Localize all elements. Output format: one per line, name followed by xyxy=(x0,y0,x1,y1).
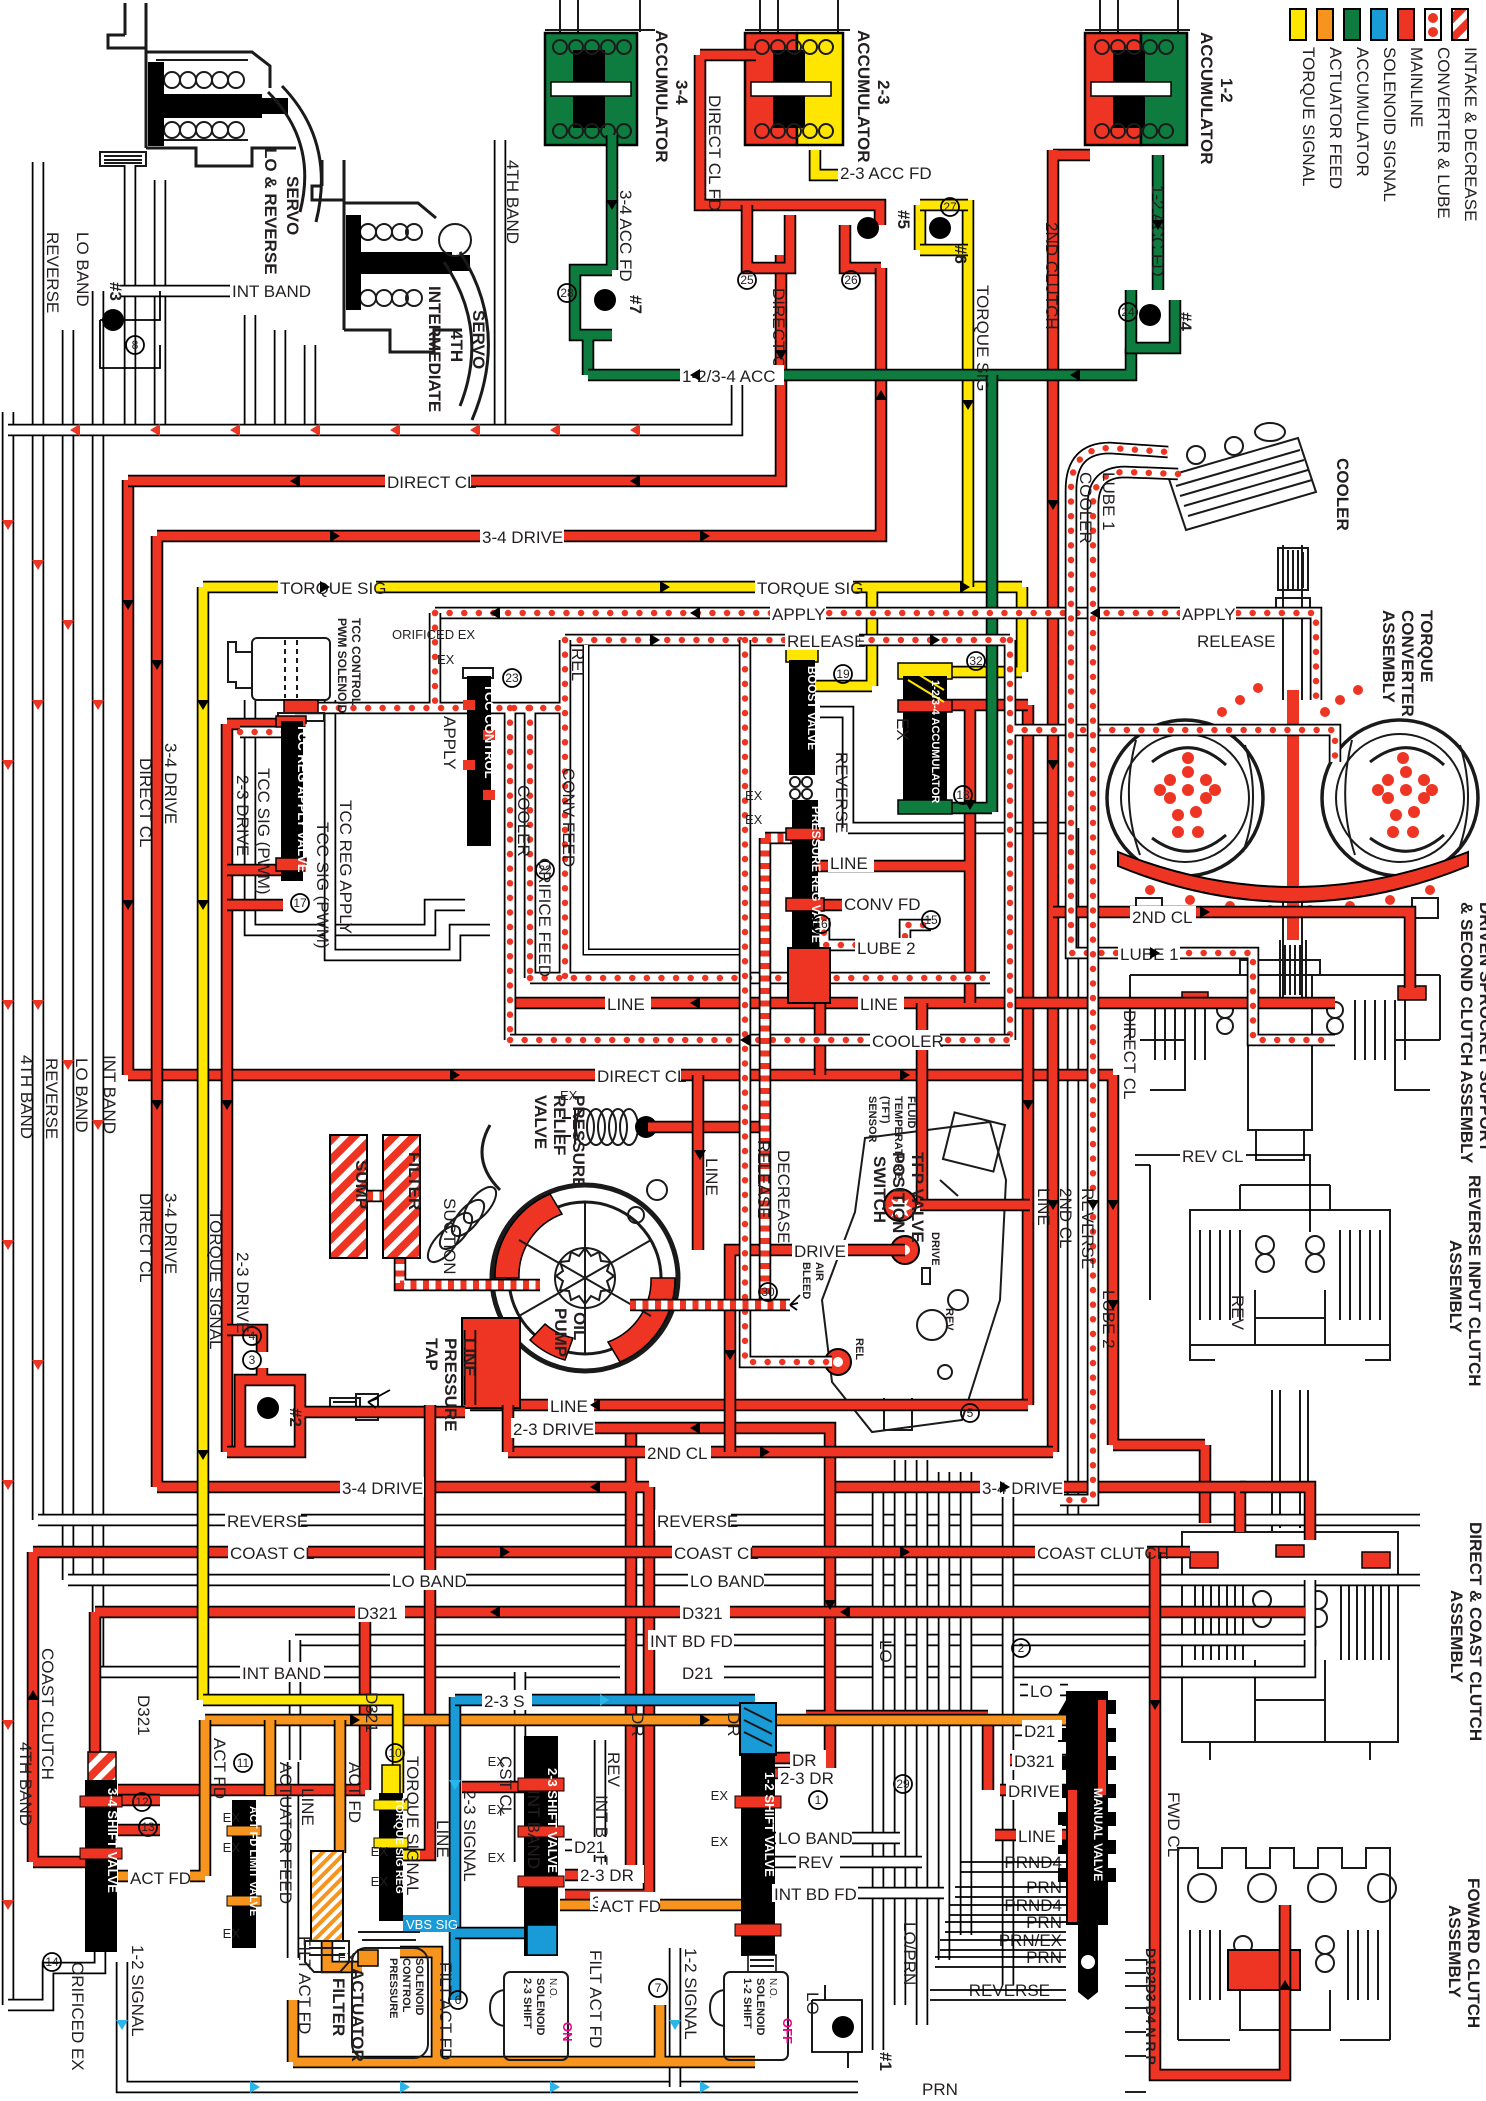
svg-text:16: 16 xyxy=(814,917,828,931)
svg-text:24: 24 xyxy=(1121,305,1135,319)
svg-text:COOLER: COOLER xyxy=(872,1032,944,1051)
svg-text:EX: EX xyxy=(745,788,763,803)
svg-text:D321: D321 xyxy=(357,1604,398,1623)
wire check 3-4 box xyxy=(227,1330,465,1452)
wire LINE label pipe (act fd area) xyxy=(287,1762,300,1958)
svg-text:PRN: PRN xyxy=(922,2080,958,2099)
check ball pressure relief xyxy=(635,1116,657,1138)
svg-text:INT BAND: INT BAND xyxy=(524,1790,543,1869)
2-3 SHIFT VALVE xyxy=(518,1736,564,1956)
svg-text:18: 18 xyxy=(956,788,970,802)
wire 1-2 SIGNAL bottom left xyxy=(122,1962,858,2087)
svg-text:EX: EX xyxy=(488,1754,506,1769)
svg-text:4TH BAND: 4TH BAND xyxy=(17,1055,36,1139)
svg-text:32: 32 xyxy=(969,654,983,668)
svg-text:& SECOND CLUTCH ASSEMBLY: & SECOND CLUTCH ASSEMBLY xyxy=(1457,902,1476,1164)
label RELEASE mid xyxy=(785,630,865,651)
wire INT BAND left vertical xyxy=(92,291,105,1672)
legend swatch TORQUE SIGNAL xyxy=(1290,9,1306,40)
svg-text:4TH BAND: 4TH BAND xyxy=(16,1742,35,1826)
svg-text:DR: DR xyxy=(792,1751,817,1770)
label LINE mid horizontals xyxy=(605,993,651,1014)
svg-text:LINE: LINE xyxy=(607,995,645,1014)
svg-text:SERVO: SERVO xyxy=(283,176,302,235)
svg-text:EX: EX xyxy=(223,1810,241,1825)
svg-text:LO BAND: LO BAND xyxy=(690,1572,765,1591)
check ball #6 xyxy=(929,217,951,239)
wire 1-2 ACC FD xyxy=(1152,155,1165,290)
svg-text:4TH: 4TH xyxy=(447,330,466,362)
wire LUBE 2 stub at pressure reg xyxy=(824,918,931,945)
REVERSE INPUT CLUTCH ASSEMBLY drawing xyxy=(1190,1185,1390,1360)
svg-text:LO BAND: LO BAND xyxy=(73,232,92,307)
svg-text:LUBE 1: LUBE 1 xyxy=(1120,945,1179,964)
svg-text:REVERSE INPUT CLUTCH: REVERSE INPUT CLUTCH xyxy=(1465,1175,1484,1387)
label LINE manual xyxy=(1016,1825,1062,1846)
filter box xyxy=(383,1135,420,1258)
svg-text:APPLY: APPLY xyxy=(772,605,826,624)
check ball #7 xyxy=(594,289,616,311)
svg-text:FILT ACT FD: FILT ACT FD xyxy=(586,1950,605,2048)
svg-text:COOLER: COOLER xyxy=(1333,458,1352,531)
MANUAL VALVE xyxy=(1058,1691,1116,2000)
check ball #5 xyxy=(857,217,879,239)
wire COOLER return xyxy=(510,1034,1010,1047)
svg-text:N.O.: N.O. xyxy=(547,1978,558,1999)
svg-text:PUMP: PUMP xyxy=(551,1308,570,1357)
svg-text:EX: EX xyxy=(560,1088,578,1103)
legend swatch ACCUMULATOR xyxy=(1344,9,1360,40)
wire INT BAND bottom horizontal xyxy=(98,1666,620,1679)
label DIRECT CL top line xyxy=(385,471,476,492)
svg-text:25: 25 xyxy=(740,273,754,287)
svg-text:LUBE 2: LUBE 2 xyxy=(1099,1290,1118,1349)
svg-text:DIRECT CL: DIRECT CL xyxy=(387,473,476,492)
svg-text:ACT FD: ACT FD xyxy=(345,1762,364,1823)
wire LO BAND 1-2sv stub xyxy=(775,1832,900,1845)
svg-text:MANUAL VALVE: MANUAL VALVE xyxy=(1091,1788,1105,1881)
svg-text:VBS SIG: VBS SIG xyxy=(406,1917,458,1932)
svg-text:TCC CONTROL: TCC CONTROL xyxy=(482,684,497,779)
svg-text:D321: D321 xyxy=(1014,1752,1055,1771)
TORQUE CONVERTER ASSEMBLY drawing xyxy=(1107,545,1478,1000)
wire LINE right vertical xyxy=(1022,705,1035,1405)
wire D21 horizontal xyxy=(680,1640,1310,1672)
svg-text:3-4 DRIVE: 3-4 DRIVE xyxy=(482,528,563,547)
TCC REG APPLY VALVE xyxy=(276,716,310,881)
svg-text:2ND CL: 2ND CL xyxy=(1132,908,1192,927)
svg-text:REV CL: REV CL xyxy=(1182,1147,1243,1166)
wire 3-4 DRIVE vertical + horizontal xyxy=(157,268,1240,1895)
label 2-3 S xyxy=(482,1690,532,1711)
svg-text:SWITCH: SWITCH xyxy=(870,1156,889,1223)
label RELEASE right xyxy=(1195,630,1275,651)
wire ACT FD filter drop xyxy=(334,1720,347,1853)
svg-text:17: 17 xyxy=(293,896,307,910)
svg-text:LO & REVERSE: LO & REVERSE xyxy=(261,148,280,275)
svg-text:7: 7 xyxy=(655,1981,662,1995)
svg-text:10: 10 xyxy=(388,1746,402,1760)
svg-text:27: 27 xyxy=(943,200,957,214)
svg-text:BLEED: BLEED xyxy=(800,1262,812,1299)
wire servo feed a xyxy=(124,165,137,425)
wire filter to PCS xyxy=(327,1940,362,1967)
LINE PRESSURE TAP bolt xyxy=(330,1394,378,1420)
wire servo feed b xyxy=(154,180,167,425)
svg-text:TORQUE SIGNAL: TORQUE SIGNAL xyxy=(1299,47,1318,187)
wire FWD CL xyxy=(1155,1552,1285,2075)
svg-text:FILT ACT FD: FILT ACT FD xyxy=(436,1962,455,2060)
svg-text:LINE: LINE xyxy=(460,1338,479,1377)
svg-text:2-3 SHIFT: 2-3 SHIFT xyxy=(521,1978,533,2029)
svg-text:#7: #7 xyxy=(626,295,645,314)
svg-text:DECREASE: DECREASE xyxy=(774,1150,793,1244)
wire sump-filter connector xyxy=(367,1190,383,1203)
TORQUE SIG REG valve xyxy=(374,1765,408,1921)
wire SUCTION striped xyxy=(400,1258,540,1285)
wire servo feed d xyxy=(274,330,287,425)
wire actuator feed trunk xyxy=(205,1720,1095,1760)
label 2ND CL horizontal xyxy=(1130,906,1196,927)
wire DECREASE striped xyxy=(765,838,795,1305)
wire air bleed striped xyxy=(630,1299,790,1312)
svg-text:REV: REV xyxy=(604,1752,623,1788)
TFP VALVE POSITION SWITCH drawing xyxy=(822,1112,1006,1432)
svg-text:26: 26 xyxy=(844,273,858,287)
check ball #3 servo area xyxy=(100,291,160,368)
svg-text:DRIVEN SPROCKET SUPPORT: DRIVEN SPROCKET SUPPORT xyxy=(1476,902,1486,1153)
label D321 rows xyxy=(680,1602,730,1623)
svg-text:LUBE 2: LUBE 2 xyxy=(857,939,916,958)
svg-text:2-3 DR: 2-3 DR xyxy=(580,1866,634,1885)
svg-text:TORQUE SIG: TORQUE SIG xyxy=(757,579,863,598)
LO & REVERSE SERVO drawing xyxy=(100,3,321,222)
wire D21 stub 2-3sv xyxy=(565,1839,610,1852)
wire LUBE 1 vertical + horizontal xyxy=(1071,560,1335,1040)
INTERMEDIATE 4TH SERVO drawing xyxy=(312,160,488,420)
svg-text:FILTER: FILTER xyxy=(405,1152,424,1210)
svg-text:EX: EX xyxy=(437,652,455,667)
label DRIVE manual xyxy=(1006,1780,1062,1801)
svg-text:EX: EX xyxy=(711,1834,729,1849)
svg-text:INT BAND: INT BAND xyxy=(232,282,311,301)
svg-text:TORQUE: TORQUE xyxy=(1417,610,1436,682)
svg-text:TCC SIG (PWM): TCC SIG (PWM) xyxy=(313,822,332,949)
label LO BAND 1-2sv xyxy=(776,1828,853,1848)
svg-text:REL: REL xyxy=(568,648,587,681)
legend swatch MAINLINE xyxy=(1398,9,1414,40)
svg-text:CONTROL: CONTROL xyxy=(400,1958,412,2013)
label APPLY mid xyxy=(770,603,826,624)
label 2-3 DR stub xyxy=(578,1865,644,1885)
legend swatch INTAKE & DECREASE xyxy=(1452,9,1468,40)
label DR 1-2sv xyxy=(790,1750,826,1770)
svg-text:LINE: LINE xyxy=(433,1820,452,1858)
svg-text:DIRECT CL: DIRECT CL xyxy=(136,1193,155,1282)
svg-text:BOOST VALVE: BOOST VALVE xyxy=(805,666,819,750)
svg-text:INT BD FD: INT BD FD xyxy=(774,1885,857,1904)
label 3-4 DRIVE bottom xyxy=(980,1477,1064,1498)
svg-text:D321: D321 xyxy=(682,1604,723,1623)
wire 1-2/3-4 ACC trunk xyxy=(588,348,1131,375)
svg-text:DIRECT CL: DIRECT CL xyxy=(1120,1010,1139,1099)
svg-text:OFF: OFF xyxy=(780,2018,795,2044)
VBS SIG tag xyxy=(403,1915,458,1932)
wire TCC REG APPLY pipe xyxy=(330,700,490,955)
wire 2-3 DRIVE bottom xyxy=(227,724,988,1790)
wire REVERSE mid vertical right xyxy=(1067,828,1080,1520)
wire RELEASE to TFP REL xyxy=(745,640,832,1362)
wire LO stub xyxy=(1020,1684,1068,1697)
svg-text:#5: #5 xyxy=(894,210,913,229)
svg-text:COAST CL: COAST CL xyxy=(674,1544,759,1563)
check ball #2 xyxy=(257,1397,279,1419)
svg-text:1-2 SIGNAL: 1-2 SIGNAL xyxy=(128,1945,147,2037)
DRIVEN SPROCKET SUPPORT & SECOND CLUTCH ASSEMBLY drawing xyxy=(1130,960,1440,1160)
wire direct&coast staircase xyxy=(1240,1487,1310,1540)
svg-text:DIRECT CL: DIRECT CL xyxy=(136,758,155,847)
svg-text:1-2: 1-2 xyxy=(1217,78,1236,103)
spring intake pump xyxy=(422,1182,502,1268)
svg-text:#2: #2 xyxy=(286,1408,305,1427)
wire pump outlet xyxy=(462,1318,520,1408)
label CONV FD xyxy=(842,893,922,914)
wire REVERSE long horizontal xyxy=(38,1514,1420,1527)
svg-text:12: 12 xyxy=(135,1795,149,1809)
wire 2-3 SIGNAL vertical xyxy=(449,1697,462,2000)
svg-text:INT BAND: INT BAND xyxy=(100,1055,119,1134)
label D21 xyxy=(680,1662,724,1683)
wire REV 1-2sv stub xyxy=(775,1856,922,1869)
svg-text:SOLENOID: SOLENOID xyxy=(413,1958,425,2016)
wire 2ND CLUTCH vertical xyxy=(1053,150,1090,1452)
svg-text:14: 14 xyxy=(45,1955,59,1969)
svg-text:LINE: LINE xyxy=(550,1397,588,1416)
wire LO BAND left vertical xyxy=(62,330,75,1580)
REV CL thin line xyxy=(1135,1155,1310,1300)
svg-text:#3: #3 xyxy=(106,282,125,301)
svg-text:APPLY: APPLY xyxy=(1182,605,1236,624)
svg-text:LO BAND: LO BAND xyxy=(392,1572,467,1591)
label LO manual xyxy=(1028,1680,1060,1701)
wire manual valve D321 stub xyxy=(1010,1754,1068,1767)
svg-text:DIRECT CL FD: DIRECT CL FD xyxy=(705,95,724,211)
svg-text:3-4 ACC FD: 3-4 ACC FD xyxy=(616,190,635,282)
svg-text:ON: ON xyxy=(560,2022,575,2042)
label APPLY right xyxy=(1180,603,1236,624)
svg-text:D321: D321 xyxy=(134,1695,153,1736)
legend swatch CONVERTER & LUBE xyxy=(1425,9,1441,40)
svg-text:REV: REV xyxy=(798,1853,834,1872)
wire 2-3 S horizontal xyxy=(455,1694,755,1707)
label DIRECT CL main xyxy=(595,1065,686,1086)
wire manual valve feed bundle xyxy=(894,1460,907,2005)
svg-text:TCC SIG (PWM): TCC SIG (PWM) xyxy=(254,768,273,895)
svg-text:TORQUE SIGNAL: TORQUE SIGNAL xyxy=(403,1756,422,1896)
wire COAST CLUTCH vertical + COAST CL horizontal xyxy=(33,1552,1190,1862)
svg-text:ACTUATOR: ACTUATOR xyxy=(348,1968,367,2062)
wire LINE pump vertical xyxy=(692,1075,705,1250)
svg-text:LO: LO xyxy=(876,1640,895,1663)
svg-text:FLUID: FLUID xyxy=(905,1096,917,1128)
wire DRIVE tfp xyxy=(730,1250,905,1452)
FOWARD CLUTCH ASSEMBLY drawing xyxy=(1178,1848,1396,2040)
wire REV drop xyxy=(594,1740,607,1862)
wire INT BAND drop to 1-2 SV xyxy=(514,1672,527,1862)
3-4 SHIFT VALVE xyxy=(80,1752,122,1952)
svg-text:D21: D21 xyxy=(1024,1722,1055,1741)
svg-text:2-3 DR: 2-3 DR xyxy=(780,1769,834,1788)
svg-text:13: 13 xyxy=(141,1820,155,1834)
wire TORQUE SIG trunk xyxy=(203,587,1022,1700)
svg-text:5: 5 xyxy=(967,1406,974,1420)
wire D321 horizontal xyxy=(95,1612,1305,1790)
svg-text:DIRECT CL: DIRECT CL xyxy=(597,1067,686,1086)
svg-text:23: 23 xyxy=(505,671,519,685)
svg-text:D321: D321 xyxy=(362,1692,381,1733)
svg-text:ACT FD LIMIT VALVE: ACT FD LIMIT VALVE xyxy=(247,1806,259,1916)
wire check 27 loop xyxy=(920,205,968,250)
2-3 SHIFT SOLENOID xyxy=(490,1925,575,2060)
svg-text:REV: REV xyxy=(1228,1295,1247,1331)
wire lube1 arc xyxy=(1093,472,1178,560)
label COAST CLUTCH right xyxy=(1035,1542,1169,1563)
svg-text:ACT FD: ACT FD xyxy=(210,1738,229,1799)
svg-text:1-2 SIGNAL: 1-2 SIGNAL xyxy=(681,1948,700,2040)
svg-text:2-3 SIGNAL: 2-3 SIGNAL xyxy=(460,1790,479,1882)
svg-text:19: 19 xyxy=(836,667,850,681)
svg-text:DIRECT & COAST CLUTCH: DIRECT & COAST CLUTCH xyxy=(1466,1522,1485,1741)
wire LUBE 2 vertical xyxy=(1060,560,1093,1500)
BOOST VALVE xyxy=(786,648,819,799)
svg-text:EX: EX xyxy=(223,1840,241,1855)
svg-text:DRIVE: DRIVE xyxy=(929,1232,941,1266)
svg-text:COAST CLUTCH: COAST CLUTCH xyxy=(38,1648,57,1780)
svg-text:AIR: AIR xyxy=(813,1262,825,1281)
label 3-4 DRIVE line xyxy=(480,526,564,547)
svg-text:DIRECT CL: DIRECT CL xyxy=(769,288,788,377)
wire REVERSE left vertical xyxy=(32,162,45,1520)
wire 4TH BAND from int servo xyxy=(494,140,507,430)
svg-text:11: 11 xyxy=(237,1756,250,1770)
PRESSURE REG VALVE xyxy=(786,800,830,1003)
label TORQUE SIG mid xyxy=(755,577,863,598)
svg-text:3-4 SHIFT VALVE: 3-4 SHIFT VALVE xyxy=(105,1788,120,1893)
wire 2-3 SV signal branch xyxy=(455,1927,524,1940)
svg-text:PRESSURE: PRESSURE xyxy=(441,1338,460,1432)
svg-text:LUBE 1: LUBE 1 xyxy=(1099,472,1118,531)
svg-text:D1D2D3 D4 N R P: D1D2D3 D4 N R P xyxy=(1143,1948,1159,2065)
svg-text:RELEASE: RELEASE xyxy=(787,632,865,651)
svg-text:ACTUATOR FEED: ACTUATOR FEED xyxy=(1326,47,1345,189)
svg-text:LINE: LINE xyxy=(1034,1188,1053,1226)
svg-text:2-3: 2-3 xyxy=(874,80,893,105)
wire check 25 loop xyxy=(747,205,790,268)
svg-text:APPLY: APPLY xyxy=(440,716,459,770)
wire converter feed rectangle xyxy=(240,613,990,1040)
svg-text:SOLENOID: SOLENOID xyxy=(754,1978,766,2036)
label INT BD FD 1-2sv xyxy=(772,1884,858,1904)
svg-text:LINE: LINE xyxy=(1018,1827,1056,1846)
wire 4TH BAND left vertical xyxy=(2,412,15,2005)
svg-text:29: 29 xyxy=(896,1777,910,1791)
svg-text:4TH BAND: 4TH BAND xyxy=(503,160,522,244)
wire manual valve LINE stub xyxy=(995,1829,1068,1842)
svg-text:3: 3 xyxy=(249,1353,256,1367)
svg-text:LO: LO xyxy=(803,1992,822,2015)
svg-text:LO BAND: LO BAND xyxy=(72,1058,91,1133)
svg-text:D21: D21 xyxy=(574,1838,605,1857)
svg-text:LINE: LINE xyxy=(860,995,898,1014)
wire 3-4 SV right stubs xyxy=(118,1800,160,1830)
svg-text:EX: EX xyxy=(488,1850,506,1865)
1-2 SHIFT VALVE xyxy=(735,1703,781,1956)
svg-text:OIL: OIL xyxy=(570,1312,589,1340)
svg-text:3-4 DRIVE: 3-4 DRIVE xyxy=(342,1479,423,1498)
svg-text:SUCTION: SUCTION xyxy=(440,1198,459,1275)
svg-text:3-4: 3-4 xyxy=(672,80,691,105)
wire TCC reg apply stub xyxy=(227,870,283,905)
svg-text:REVERSE: REVERSE xyxy=(42,1058,61,1139)
COOLER drawing xyxy=(1168,423,1316,530)
svg-text:CONV FD: CONV FD xyxy=(844,895,921,914)
wire actuator feed limit drop xyxy=(264,1720,277,1795)
svg-text:30: 30 xyxy=(761,1285,775,1299)
label 2-3 DRIVE bottom xyxy=(511,1418,595,1439)
svg-text:COOLER: COOLER xyxy=(514,785,533,857)
svg-text:EX: EX xyxy=(488,1802,506,1817)
wire green acc vertical xyxy=(947,375,992,812)
svg-text:TORQUE SIG: TORQUE SIG xyxy=(973,285,992,391)
svg-text:CONVERTER & LUBE: CONVERTER & LUBE xyxy=(1434,47,1453,219)
label REV CL xyxy=(1180,1145,1246,1166)
label LUBE 1 xyxy=(1118,944,1180,964)
svg-text:ACCUMULATOR: ACCUMULATOR xyxy=(854,30,873,163)
svg-text:2ND CLUTCH: 2ND CLUTCH xyxy=(1042,222,1061,330)
wire servo feed e xyxy=(304,345,317,425)
svg-text:EX: EX xyxy=(371,1874,389,1889)
svg-text:LINE: LINE xyxy=(298,1788,317,1826)
PRESSURE RELIEF VALVE spring xyxy=(562,1109,638,1145)
svg-text:2-3 DRIVE: 2-3 DRIVE xyxy=(233,775,252,856)
wire servo feed c xyxy=(244,315,257,425)
svg-text:2-3 SHIFT VALVE: 2-3 SHIFT VALVE xyxy=(545,1768,560,1873)
wire TCC SIG (PWM) pipe xyxy=(250,700,465,930)
wire ACT FD drop to 3-4 SV xyxy=(118,1720,205,1876)
svg-text:EX: EX xyxy=(745,812,763,827)
label LINE pressure reg xyxy=(828,852,874,873)
svg-text:1: 1 xyxy=(815,1793,822,1807)
svg-text:CONV FEED: CONV FEED xyxy=(559,768,578,867)
check ball #4 xyxy=(1139,304,1161,326)
label TORQUE SIG left xyxy=(278,577,386,598)
label LO BAND rows xyxy=(688,1570,765,1591)
svg-text:3-4 DRIVE: 3-4 DRIVE xyxy=(161,743,180,824)
wire PCS out xyxy=(293,1952,755,2062)
label 2ND CL bottom xyxy=(645,1442,711,1463)
svg-text:COAST CL: COAST CL xyxy=(230,1544,315,1563)
PRESSURE CONTROL SOLENOID xyxy=(352,1932,428,2058)
label 2-3 DR 1-2sv xyxy=(778,1768,844,1788)
svg-text:COOLER: COOLER xyxy=(1076,472,1095,544)
OIL PUMP drawing xyxy=(482,1125,678,1371)
sump box xyxy=(330,1135,367,1258)
svg-text:REVERSE: REVERSE xyxy=(832,752,851,833)
svg-text:EX: EX xyxy=(893,718,912,741)
label COAST CL rows xyxy=(672,1542,759,1563)
svg-text:TCC CONTROL: TCC CONTROL xyxy=(349,618,363,705)
1-2 SHIFT SOLENOID xyxy=(710,1955,795,2060)
